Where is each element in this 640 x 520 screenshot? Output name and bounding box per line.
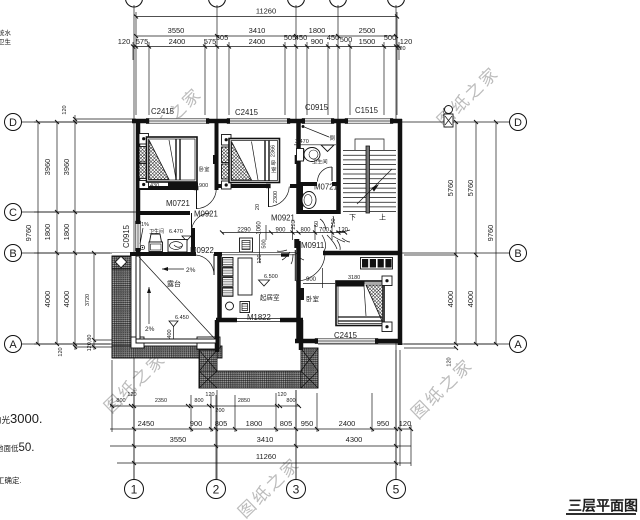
door opening M1822	[237, 317, 280, 323]
axis 5 line	[395, 5, 397, 479]
living room sofa boxes	[223, 258, 234, 297]
window C0915 left bathroom	[135, 221, 141, 251]
svg-text:1%: 1%	[141, 222, 149, 228]
right axis circle D	[510, 114, 527, 131]
svg-text:4300: 4300	[346, 435, 363, 444]
door opening M0922 to terrace	[196, 251, 214, 257]
dim line tier3	[110, 445, 411, 447]
left dim ticks	[36, 117, 96, 349]
axis 3 line	[295, 5, 297, 479]
left dimension block	[34, 115, 136, 350]
dim line 9760	[495, 122, 497, 344]
dim line 9760	[37, 122, 39, 344]
bathroom top bottom wall	[299, 182, 341, 186]
svg-text:M1822: M1822	[247, 313, 271, 322]
interior wall center x297	[296, 121, 301, 341]
svg-text:4000: 4000	[62, 291, 71, 308]
svg-text:500: 500	[262, 239, 268, 248]
stair break line with arrow	[357, 169, 392, 204]
svg-text:1500: 1500	[359, 37, 376, 46]
bedroom2 label	[271, 159, 277, 174]
svg-text:2500: 2500	[359, 26, 376, 35]
bathroom top: cistern and toilet	[297, 148, 321, 162]
svg-text:4000: 4000	[446, 291, 455, 308]
bottom axis circle 3	[287, 480, 306, 499]
svg-text:6.450: 6.450	[175, 315, 189, 321]
svg-text:B: B	[9, 248, 16, 260]
dim line 5760/4000 b	[475, 122, 477, 344]
living room bottom wall	[216, 318, 303, 323]
living room left wall	[217, 253, 222, 320]
svg-text:11260: 11260	[256, 452, 276, 461]
svg-text:700: 700	[319, 228, 330, 234]
top dimension block	[133, 12, 399, 115]
svg-text:1800: 1800	[246, 419, 263, 428]
bed2 nightstand top	[222, 135, 232, 146]
svg-text:上: 上	[379, 213, 386, 222]
svg-text:1: 1	[131, 483, 138, 497]
sink counter	[168, 240, 187, 253]
svg-text:3180: 3180	[348, 275, 360, 281]
svg-text:120: 120	[58, 347, 64, 356]
dim line total 11260	[136, 16, 397, 18]
tile hatch porch right strip	[301, 348, 318, 388]
left axis circle D	[5, 114, 22, 131]
dim line left tier3	[74, 115, 76, 350]
window C2415 bedroom1	[146, 118, 209, 124]
svg-text:1800: 1800	[43, 224, 52, 241]
svg-text:1800: 1800	[62, 224, 71, 241]
svg-text:805: 805	[280, 419, 293, 428]
svg-text:卫生间: 卫生间	[312, 158, 328, 166]
svg-text:800: 800	[116, 398, 125, 404]
level 6.470	[169, 229, 191, 241]
svg-text:1800: 1800	[309, 26, 326, 35]
tile hatch terrace left strip	[112, 256, 131, 358]
svg-text:505: 505	[216, 33, 229, 42]
door stop jamb bed1 wall	[213, 155, 217, 164]
threshold mark	[281, 253, 289, 256]
bedroom3 top wall	[323, 251, 402, 256]
bedroom2 bottom wall	[218, 184, 297, 188]
svg-text:3960: 3960	[43, 159, 52, 176]
bathroom bottom-left right wall	[191, 228, 195, 254]
door M0922 leaf and arc	[196, 254, 214, 275]
svg-text:800: 800	[194, 398, 203, 404]
svg-text:800: 800	[300, 228, 311, 234]
svg-text:2: 2	[213, 483, 220, 497]
svg-text:M0721: M0721	[166, 199, 190, 208]
svg-text:5: 5	[393, 483, 400, 497]
basin alcove left wall	[299, 186, 303, 212]
svg-text:D: D	[514, 117, 522, 129]
plan background	[136, 121, 402, 343]
axis 2 line	[216, 5, 218, 479]
terrace parapet left	[136, 256, 140, 341]
door M0721 bathroom leaf and arc	[318, 167, 333, 182]
svg-text:倒: 倒	[330, 134, 336, 142]
dim line tier3	[133, 46, 399, 48]
door M0911 bedroom3 leaf and arc	[294, 239, 325, 281]
axis C line	[22, 211, 218, 213]
benchmark object outside right wall	[444, 106, 453, 128]
left axis circle A	[5, 336, 22, 353]
svg-text:A: A	[514, 339, 522, 351]
svg-text:3550: 3550	[170, 435, 187, 444]
bathroom bottom-left top wall	[138, 211, 190, 215]
svg-text:D: D	[9, 117, 17, 129]
svg-text:120: 120	[277, 392, 286, 398]
right axis circle B	[510, 245, 527, 262]
svg-text:500: 500	[340, 35, 353, 44]
axis grid vertical lines	[134, 5, 396, 479]
living room tv cabinet	[240, 238, 253, 252]
svg-text:120: 120	[399, 419, 412, 428]
svg-text:三层平面图: 三层平面图	[568, 498, 638, 514]
svg-text:900: 900	[190, 419, 203, 428]
svg-text:3: 3	[293, 483, 300, 497]
exterior wall left	[136, 119, 141, 256]
stair treads	[343, 151, 396, 212]
svg-text:1060: 1060	[257, 221, 263, 235]
svg-text:120: 120	[400, 37, 413, 46]
svg-text:M0921: M0921	[194, 210, 218, 219]
svg-text:120,80: 120,80	[87, 335, 93, 352]
svg-text:卧室: 卧室	[306, 294, 320, 303]
right dim ticks	[454, 120, 498, 350]
svg-text:C2415: C2415	[334, 331, 358, 340]
tile hatch porch bottom strip	[199, 371, 318, 388]
bedroom3 dim 900	[303, 268, 335, 288]
door stop jamb bed2 wall	[295, 155, 299, 164]
svg-text:3720: 3720	[85, 294, 91, 306]
bottom axis circle 2	[207, 480, 226, 499]
svg-text:2850: 2850	[238, 398, 250, 404]
terrace level 6.450	[167, 315, 189, 339]
top dim texts	[118, 7, 413, 47]
bottom dim ticks	[110, 404, 413, 465]
svg-text:3550: 3550	[168, 26, 185, 35]
bedroom1 bottom wall	[138, 186, 196, 190]
svg-text:工确定.: 工确定.	[0, 475, 22, 485]
axis D line	[22, 121, 509, 123]
door M0721 bedroom1 leaf and arc	[194, 186, 217, 209]
living room table	[238, 258, 252, 295]
svg-text:M0922: M0922	[190, 246, 214, 255]
svg-text:5760: 5760	[446, 180, 455, 197]
svg-text:400: 400	[167, 329, 173, 338]
dim line tier2	[110, 428, 411, 430]
svg-text:950: 950	[301, 419, 314, 428]
title 三层平面图	[566, 498, 638, 515]
stair void outline	[355, 139, 384, 150]
bed2 nightstand bottom	[222, 181, 232, 189]
pier terrace bottom-left	[131, 337, 144, 348]
bed1 dim bar	[150, 183, 208, 190]
svg-text:3410: 3410	[257, 435, 274, 444]
bathroom top level 3.470	[294, 139, 336, 152]
terrace parapet bottom	[136, 339, 216, 343]
bed1 headboard strip	[139, 147, 147, 179]
porch left wall	[215, 320, 220, 352]
interior wall bedroom1/bedroom2	[215, 121, 219, 190]
terrace slope arrow horizontal	[162, 267, 196, 274]
terrace diagonal	[139, 257, 215, 339]
bed1	[147, 137, 198, 182]
bottom dim texts	[116, 392, 411, 461]
svg-text:900: 900	[275, 228, 286, 234]
svg-text:2366: 2366	[271, 145, 277, 157]
svg-text:M0911: M0911	[301, 241, 324, 250]
svg-text:60: 60	[314, 221, 320, 227]
bed3 nightstand top	[382, 276, 392, 286]
right dimension block	[404, 122, 496, 348]
extension lines	[133, 390, 135, 479]
svg-text:露台: 露台	[167, 279, 181, 288]
svg-text:4000: 4000	[466, 291, 475, 308]
axis grid horizontal lines	[22, 122, 509, 344]
right dim texts (rotated)	[396, 46, 495, 367]
svg-text:900: 900	[199, 183, 208, 189]
svg-text:3.470: 3.470	[295, 139, 309, 145]
svg-text:地面低50.: 地面低50.	[0, 442, 35, 454]
svg-text:2400: 2400	[249, 37, 266, 46]
door M0921 bedroom2 leaf and arc	[266, 184, 289, 207]
svg-text:200: 200	[215, 408, 224, 414]
svg-text:120: 120	[257, 254, 263, 263]
svg-text:2290: 2290	[237, 228, 251, 234]
svg-text:B: B	[514, 248, 521, 260]
dim chain living left: 500 / 120	[257, 234, 268, 264]
svg-text:2%: 2%	[145, 326, 155, 333]
exterior wall top	[132, 119, 402, 124]
window C2415 bedroom3	[315, 338, 378, 344]
svg-text:C0915: C0915	[122, 224, 131, 248]
svg-text:A: A	[9, 339, 17, 351]
towel rail	[302, 125, 329, 137]
door bathroom-bl leaf and arc	[192, 213, 211, 232]
stair left wall	[336, 121, 341, 214]
living room stool	[240, 302, 250, 313]
svg-text:805: 805	[215, 419, 228, 428]
bathroom bottom-left: slope 1%	[140, 222, 149, 244]
window C2415 bedroom2	[227, 118, 290, 124]
doorstop marks bed3 wall	[300, 288, 304, 300]
svg-text:6.500: 6.500	[264, 274, 278, 280]
svg-text:800: 800	[286, 398, 295, 404]
svg-text:120: 120	[205, 392, 214, 398]
svg-text:900: 900	[306, 277, 317, 283]
svg-text:20: 20	[255, 204, 261, 210]
svg-text:900: 900	[311, 37, 324, 46]
svg-text:575: 575	[204, 37, 217, 46]
svg-text:11260: 11260	[256, 7, 276, 16]
svg-text:卫生: 卫生	[0, 37, 12, 46]
svg-text:3410: 3410	[249, 26, 266, 35]
svg-text:2400: 2400	[169, 37, 186, 46]
tile hatch terrace bottom strip	[112, 346, 222, 358]
svg-text:起居室: 起居室	[260, 293, 280, 302]
leader scribbles	[277, 216, 350, 264]
bottom axis circle 5	[387, 480, 406, 499]
top axis circle stubs	[126, 0, 405, 7]
dim line 5760/4000	[455, 122, 457, 344]
svg-text:C2415: C2415	[151, 107, 175, 116]
svg-text:575: 575	[136, 37, 149, 46]
bed1 nightstand bottom	[139, 181, 149, 189]
svg-text:统水: 统水	[0, 28, 12, 37]
bed3 nightstand bottom	[382, 322, 392, 332]
dim line tier2	[136, 35, 397, 37]
pier porch bottom-right X	[301, 348, 318, 388]
bed3	[336, 281, 384, 326]
bedroom3 bottom wall	[295, 339, 402, 344]
bedroom3 wardrobe	[361, 258, 393, 270]
dim line tier1	[110, 405, 300, 407]
window C0915 bathroom top	[302, 118, 334, 124]
svg-text:室: 室	[271, 166, 277, 174]
living room dim row	[222, 225, 345, 240]
svg-text:9760: 9760	[486, 225, 495, 242]
toilet bottom-left	[149, 234, 163, 252]
svg-text:2400: 2400	[339, 419, 356, 428]
bottom axis circle 1	[125, 480, 144, 499]
left axis circle B	[5, 245, 22, 262]
svg-text:卧室: 卧室	[199, 165, 209, 173]
svg-text:120: 120	[447, 357, 453, 366]
dim line 3720	[93, 253, 95, 350]
svg-text:500: 500	[384, 33, 397, 42]
left margin notes	[0, 411, 43, 485]
pier porch bottom-left X	[199, 350, 217, 388]
extension lines	[135, 12, 137, 115]
left dim texts (rotated)	[24, 105, 93, 356]
stair stringer	[366, 146, 370, 213]
svg-text:2450: 2450	[138, 419, 155, 428]
living room level 6.500	[259, 274, 278, 286]
floor drain	[140, 245, 144, 249]
tile hatch porch left strip	[199, 350, 217, 388]
terrace slope arrow vertical	[145, 287, 155, 333]
svg-text:下: 下	[349, 214, 356, 222]
svg-text:430: 430	[150, 183, 159, 189]
svg-text:6.470: 6.470	[169, 229, 183, 235]
dim line left tier2	[56, 122, 58, 344]
svg-text:卧: 卧	[271, 159, 277, 167]
svg-text:C0915: C0915	[305, 103, 329, 112]
window C1515 stair	[345, 118, 393, 124]
svg-text:9760: 9760	[24, 225, 33, 242]
pier terrace bottom-right	[209, 337, 220, 348]
svg-text:450: 450	[327, 33, 340, 42]
svg-text:120: 120	[62, 105, 68, 114]
svg-text:M0721: M0721	[314, 183, 338, 192]
svg-text:2350: 2350	[155, 398, 167, 404]
exterior wall right	[398, 119, 403, 345]
basin alcove bottom wall	[299, 210, 341, 214]
bed1 nightstand top	[139, 134, 149, 145]
axis 1 line	[133, 5, 135, 479]
bed2 headboard strip	[222, 147, 230, 179]
beam line B axis over living room	[222, 252, 296, 255]
svg-text:120: 120	[118, 37, 131, 46]
bed2	[229, 139, 280, 183]
top dim ticks	[131, 15, 401, 49]
left axis circle C	[5, 204, 22, 221]
bathroom left-bottom exterior wall	[130, 252, 222, 256]
svg-text:120: 120	[127, 392, 136, 398]
right axis circle A	[510, 336, 527, 353]
svg-text:950: 950	[377, 419, 390, 428]
svg-text:120: 120	[396, 46, 405, 52]
svg-text:卫生间: 卫生间	[149, 228, 164, 235]
svg-text:450: 450	[295, 33, 308, 42]
axis B line	[22, 252, 509, 254]
pier porch top-left white	[197, 337, 217, 349]
svg-text:2%: 2%	[186, 267, 196, 274]
living room lamp circle	[226, 302, 234, 310]
svg-text:2300: 2300	[273, 191, 279, 203]
svg-text:C1515: C1515	[355, 106, 379, 115]
axis 4 line	[337, 5, 339, 122]
pier terrace top-left diamond	[112, 256, 131, 269]
axis A line	[22, 343, 509, 345]
svg-text:3960: 3960	[62, 159, 71, 176]
bottom dimension block	[110, 350, 411, 479]
svg-text:5760: 5760	[466, 180, 475, 197]
svg-text:4000: 4000	[43, 291, 52, 308]
dim line tier4 11260	[117, 462, 411, 464]
porch right wall	[299, 320, 304, 350]
svg-text:C: C	[9, 207, 17, 219]
svg-text:220: 220	[291, 220, 297, 229]
basin in alcove	[302, 192, 317, 209]
svg-text:C2415: C2415	[235, 108, 259, 117]
